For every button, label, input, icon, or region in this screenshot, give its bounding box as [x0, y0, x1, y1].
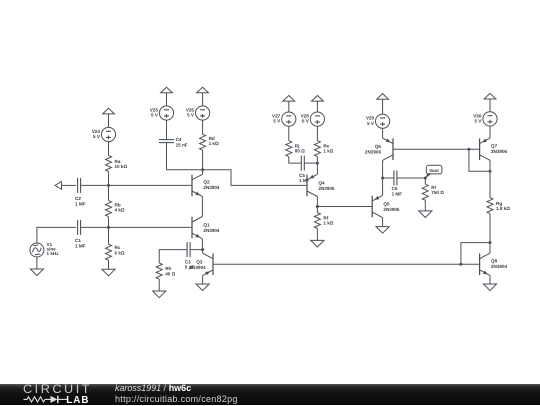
svg-text:1 kΩ: 1 kΩ — [323, 149, 333, 154]
node A junction — [107, 184, 110, 187]
resistor Rh 40 Ohm — [156, 263, 175, 279]
capacitor C2 1 MF — [75, 178, 86, 206]
capacitor C6 1 MF — [392, 171, 403, 197]
source V26 5 V — [186, 106, 210, 120]
wire Rl to ground — [424, 200, 426, 211]
svg-text:6 kΩ: 6 kΩ — [115, 250, 125, 255]
svg-text:1.8 kΩ: 1.8 kΩ — [496, 206, 510, 211]
node I junction — [424, 177, 427, 180]
wire Q3 emitter to ground — [202, 275, 204, 284]
svg-text:Q6: Q6 — [375, 144, 382, 149]
wire Q8 emitter to ground — [489, 275, 491, 284]
wire node K to long bus — [461, 243, 490, 265]
svg-text:1 MF: 1 MF — [75, 201, 86, 206]
svg-text:2N3906: 2N3906 — [318, 186, 335, 191]
svg-text:1 kHz: 1 kHz — [47, 251, 60, 256]
node F junction — [316, 205, 319, 208]
capacitor C5 1 MF — [299, 156, 310, 184]
transistor Q7 2N3906 — [480, 138, 508, 160]
node H junction — [467, 148, 470, 151]
wire Rj to C5 — [289, 157, 302, 164]
node C junction — [201, 168, 204, 171]
svg-text:2N3904: 2N3904 — [491, 264, 508, 269]
svg-text:5 V: 5 V — [474, 119, 482, 124]
node E junction — [316, 162, 319, 165]
transistor Q5 2N3906 — [372, 195, 400, 217]
wire Rd to node C — [202, 150, 204, 170]
wire arrow to V25 — [166, 93, 168, 106]
wire V27 to Rj — [288, 126, 290, 141]
transistor Q3 2N3904 — [190, 253, 213, 275]
svg-text:5 V: 5 V — [302, 119, 310, 124]
svg-text:2N3904: 2N3904 — [203, 185, 220, 190]
resistor Rj 80 Ohm — [286, 141, 305, 157]
wire Q4 collector to node F — [316, 197, 318, 207]
wire node F to Rf — [316, 207, 318, 213]
power arrow above V29 — [377, 94, 389, 100]
wire arrow to V29 — [382, 99, 384, 114]
svg-text:1 MF: 1 MF — [75, 243, 86, 248]
wire node A to Q2 base — [109, 184, 193, 186]
wire C1 to node B — [81, 226, 109, 228]
wire Q6 collector to node G — [382, 160, 384, 178]
ground below Q8 — [483, 284, 496, 291]
svg-text:2N3906: 2N3906 — [365, 150, 382, 155]
wire Q3 base to long bus — [213, 263, 461, 265]
wire Q8 collector to node K — [489, 243, 491, 254]
capacitor C3 5 uF — [185, 242, 194, 269]
wire node I to Rl — [424, 178, 426, 184]
wire arrow to V26 — [202, 93, 204, 106]
footer text — [115, 383, 238, 404]
transistor Q2 2N3904 — [192, 174, 220, 196]
wire C4 to bus — [167, 143, 203, 170]
wire C6 to node I — [397, 177, 425, 179]
wire Rh to ground — [158, 279, 160, 291]
svg-text:5 V: 5 V — [187, 113, 195, 118]
wire V25 to C4 — [166, 120, 168, 140]
wire V29 to Q6 emitter — [382, 128, 384, 138]
svg-text:1 MF: 1 MF — [392, 191, 403, 196]
resistor Rf 1 kOhm — [314, 213, 333, 229]
wire Q7 collector down — [489, 160, 491, 197]
ground below Q3 — [196, 284, 209, 291]
resistor Rb 4 kOhm — [106, 201, 125, 217]
node L junction — [459, 263, 462, 266]
svg-text:Q8: Q8 — [491, 259, 498, 264]
wire Q3 collector to node D — [202, 250, 204, 254]
wire node A to Rb — [108, 185, 110, 200]
node K junction — [489, 241, 492, 244]
svg-text:80 Ω: 80 Ω — [295, 149, 305, 154]
resistor Rl 750 Ohm — [422, 184, 444, 200]
svg-text:Q3: Q3 — [196, 259, 203, 264]
wire Q5 collector to ground — [382, 218, 384, 227]
source V28 5 V — [301, 112, 325, 126]
svg-text:10 kΩ: 10 kΩ — [115, 164, 128, 169]
svg-text:Q4: Q4 — [318, 181, 325, 186]
source V1 sine — [30, 242, 59, 257]
node J junction — [489, 170, 492, 173]
wire Q2 emitter to Q1 collector — [201, 197, 203, 217]
wire node C to Q4 base — [203, 170, 307, 186]
svg-text:Q2: Q2 — [203, 179, 210, 184]
transistor Q4 2N3906 — [307, 174, 335, 196]
wire Re to node E — [316, 157, 318, 164]
wire C1 left to V1 corner — [37, 227, 76, 243]
wire Rb to node B — [108, 217, 110, 228]
resistor Ra 10 kOhm — [106, 156, 128, 172]
svg-text:5 V: 5 V — [151, 113, 159, 118]
CircuitLab logo — [23, 384, 98, 405]
power arrow above V30 — [484, 93, 496, 99]
svg-text:5 V: 5 V — [367, 121, 375, 126]
svg-text:750 Ω: 750 Ω — [431, 190, 444, 195]
wire node E to Q4 emitter — [316, 163, 318, 174]
svg-text:2N3906: 2N3906 — [491, 149, 508, 154]
wire node H down to Q7 collector node — [469, 149, 490, 171]
wire node F to Q5 base — [317, 206, 372, 208]
power arrow above V25 — [161, 87, 173, 93]
input terminal flag — [55, 182, 62, 190]
logo resistor-diode squiggle — [23, 384, 98, 405]
source V30 5 V — [473, 112, 497, 126]
wire Rc to ground — [108, 260, 110, 269]
ground below Rf — [311, 240, 324, 247]
svg-text:5 V: 5 V — [93, 134, 101, 139]
svg-text:Q5: Q5 — [383, 202, 390, 207]
wire Q1 emitter to node D — [201, 239, 203, 250]
wire terminal to C2 — [62, 184, 77, 186]
ground below Rc — [102, 269, 115, 276]
wire C2 to node A — [81, 184, 109, 186]
svg-text:Q7: Q7 — [491, 144, 498, 149]
power arrow above V27 — [283, 96, 295, 102]
wire V28 to Re — [316, 126, 318, 141]
svg-text:4 kΩ: 4 kΩ — [115, 208, 125, 213]
resistor Rd 1 kOhm — [200, 134, 219, 150]
svg-text:2N3906: 2N3906 — [383, 207, 400, 212]
capacitor C1 1 MF — [75, 220, 86, 248]
wire node B to Rc — [108, 227, 110, 244]
source V25 5 V — [150, 106, 174, 120]
wire Ra to node A — [108, 172, 110, 186]
ground below Rl — [419, 211, 432, 218]
footer bar — [0, 384, 540, 405]
wire Q6 base bus — [393, 148, 480, 150]
power arrow above V26 — [197, 87, 209, 93]
svg-text:Q1: Q1 — [203, 223, 210, 228]
wire node B to Q1 base — [109, 226, 193, 228]
svg-text:2N3904: 2N3904 — [203, 228, 220, 233]
svg-text:15 nF: 15 nF — [176, 142, 188, 147]
ground below V1 — [30, 269, 43, 276]
wire Q2 collector to node C — [201, 170, 203, 175]
capacitor C4 15 nF — [159, 137, 188, 147]
svg-text:Vout: Vout — [429, 168, 439, 173]
wire V1 to ground — [36, 257, 38, 269]
wire V26 to Rd — [202, 120, 204, 134]
svg-text:2N3904: 2N3904 — [190, 265, 207, 270]
svg-text:5 V: 5 V — [273, 119, 281, 124]
wire V30 to Q7 emitter — [489, 126, 491, 138]
power arrow above V28 — [312, 96, 324, 102]
wire C5 to node E — [304, 162, 317, 164]
node B junction — [107, 226, 110, 229]
transistor Q6 2N3906 — [365, 138, 393, 160]
node G junction — [381, 177, 384, 180]
wire arrow to V24 — [108, 114, 110, 128]
ground below Rh — [153, 291, 166, 298]
wire arrow to V27 — [288, 101, 290, 112]
wire V24 to Ra — [108, 142, 110, 156]
wire node L to Q8 base — [461, 263, 480, 265]
source V24 5 V — [92, 127, 116, 141]
svg-text:40 Ω: 40 Ω — [165, 271, 175, 276]
wire C3 to node D — [190, 249, 203, 251]
wire node G to Q5 emitter — [382, 178, 384, 195]
ground below Q5 — [376, 227, 389, 234]
source V27 5 V — [272, 112, 296, 126]
node D junction — [201, 248, 204, 251]
wire Rg to node K — [489, 214, 491, 243]
power arrow above V24 — [103, 108, 115, 114]
resistor Re 1 kOhm — [314, 141, 333, 157]
svg-text:1 kΩ: 1 kΩ — [209, 141, 219, 146]
svg-text:1 kΩ: 1 kΩ — [323, 221, 333, 226]
transistor Q8 2N3904 — [480, 253, 508, 275]
wire node G to C6 — [383, 177, 394, 179]
flag Vout — [426, 165, 442, 178]
wire arrow to V30 — [489, 99, 491, 112]
wire arrow to V28 — [316, 101, 318, 112]
resistor Rc 6 kOhm — [106, 244, 125, 260]
resistor Rg 1.8 kOhm — [487, 198, 510, 214]
source V29 5 V — [366, 114, 390, 128]
wire C3 left to Rh — [159, 250, 187, 263]
transistor Q1 2N3904 — [192, 217, 220, 239]
wire Rf to ground — [316, 229, 318, 241]
